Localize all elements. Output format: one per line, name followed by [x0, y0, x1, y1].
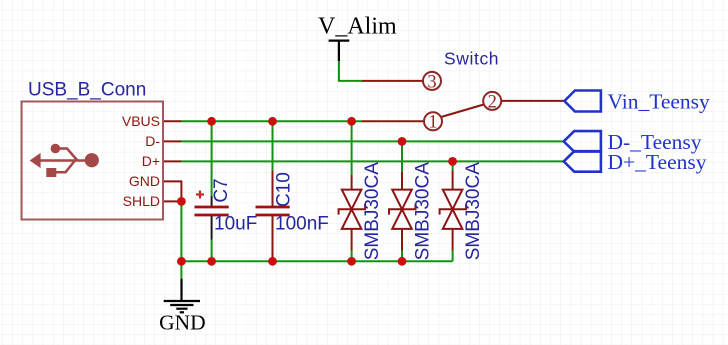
svg-text:D+_Teensy: D+_Teensy	[608, 150, 707, 174]
svg-text:C7: C7	[211, 178, 232, 202]
svg-text:1: 1	[428, 113, 437, 133]
svg-text:SMBJ30CA: SMBJ30CA	[412, 162, 433, 261]
svg-text:V_Alim: V_Alim	[318, 14, 397, 40]
svg-text:Switch: Switch	[444, 49, 499, 69]
svg-text:GND: GND	[129, 173, 160, 189]
svg-text:SMBJ30CA: SMBJ30CA	[463, 162, 484, 261]
svg-text:GND: GND	[159, 310, 206, 334]
svg-text:C10: C10	[274, 172, 295, 207]
svg-text:10uF: 10uF	[214, 213, 257, 234]
svg-text:D+: D+	[142, 153, 160, 169]
svg-text:100nF: 100nF	[275, 213, 329, 234]
svg-text:VBUS: VBUS	[122, 113, 160, 129]
svg-text:D-: D-	[145, 133, 160, 149]
svg-text:SHLD: SHLD	[123, 193, 160, 209]
svg-text:SMBJ30CA: SMBJ30CA	[362, 162, 383, 261]
svg-text:2: 2	[488, 92, 497, 112]
svg-text:USB_B_Conn: USB_B_Conn	[28, 80, 146, 101]
svg-text:3: 3	[427, 72, 436, 92]
svg-text:Vin_Teensy: Vin_Teensy	[608, 90, 711, 114]
